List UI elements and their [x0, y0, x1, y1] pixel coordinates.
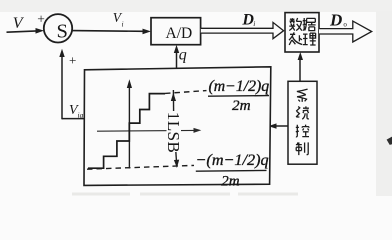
axis: vertical with up arrow [128, 84, 130, 169]
label 1LSB (rotated) [167, 111, 182, 152]
bus arrow Di: A/D to data-processing (hollow double-line arrow) [201, 22, 284, 38]
top grey strip [0, 0, 392, 12]
system control box (系统控制) [288, 81, 317, 164]
dashed line top level [165, 91, 207, 94]
svg-text:A/D: A/D [166, 25, 193, 42]
svg-text:2m: 2m [221, 173, 240, 189]
staircase generator box [84, 67, 271, 186]
wire: system-control to data-processing arrow [299, 57, 301, 82]
dimension arrow 1LSB (bottom part) [175, 151, 178, 165]
feedback wire from staircase box to summer [62, 118, 85, 120]
wire: system-control to staircase box arrow (points left) [275, 125, 288, 127]
svg-text:D: D [329, 11, 342, 30]
staircase waveform [88, 94, 165, 169]
A/D converter box U1 [151, 18, 201, 45]
glyph 控 [296, 125, 309, 137]
data processing box (数据处理) [285, 13, 319, 52]
axis: horizontal with right arrow [97, 129, 196, 132]
svg-text:S: S [57, 21, 68, 43]
glyph 制 [296, 142, 308, 155]
svg-text:2m: 2m [232, 97, 251, 114]
svg-text:ia: ia [78, 111, 84, 120]
svg-text:+: + [69, 53, 76, 68]
faint caption smudge below figure [72, 193, 298, 196]
glyph 理 [303, 33, 316, 45]
svg-text:−(m−1/2)q: −(m−1/2)q [196, 151, 269, 169]
glyph 据 [303, 18, 316, 31]
glyph 系 [297, 89, 308, 102]
wire: input V arrow into summer [7, 31, 38, 32]
wire: summer to A/D, label Vi [72, 30, 144, 33]
svg-text:(m−1/2)q: (m−1/2)q [209, 78, 270, 95]
svg-text:1LSB: 1LSB [164, 112, 183, 153]
pen mark at right edge [387, 137, 392, 145]
right grey strip [376, 11, 392, 196]
dashed line bottom level [87, 165, 194, 169]
glyph 数 [289, 18, 302, 31]
glyph 统 [296, 106, 309, 119]
svg-text:i: i [122, 20, 124, 29]
summer S circle [44, 14, 72, 42]
glyph 处 [289, 32, 302, 45]
svg-text:o: o [343, 21, 347, 29]
svg-text:q: q [179, 47, 187, 64]
bus arrow Do: data-processing to output (hollow double-line arrow) [319, 21, 372, 42]
wire: q arrow from staircase box to A/D [176, 50, 178, 68]
svg-text:i: i [253, 19, 255, 28]
dimension arrow 1LSB (top part) [172, 90, 174, 111]
